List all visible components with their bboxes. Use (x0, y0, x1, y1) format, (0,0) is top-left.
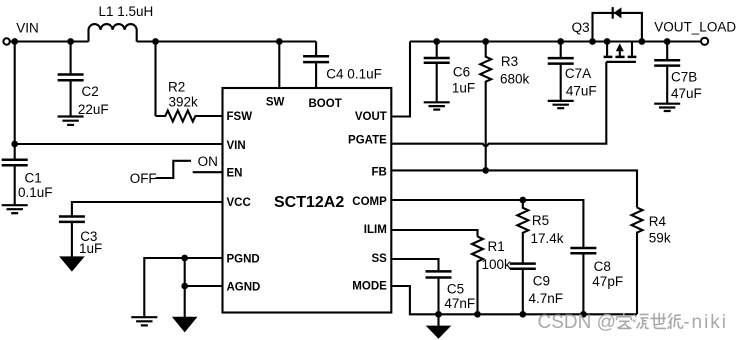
svg-text:VIN: VIN (16, 21, 39, 36)
node C5 ground junction (435, 311, 442, 318)
svg-text:ON: ON (198, 154, 218, 169)
svg-text:C6: C6 (453, 65, 470, 80)
wire VCC pin (72, 202, 223, 215)
op-amp U1 IC body SCT12A2 (223, 88, 392, 313)
svg-text:R4: R4 (649, 214, 667, 229)
node C6 junction (433, 38, 440, 45)
capacitor C1 (14, 42, 16, 159)
terminal VIN (3, 38, 9, 44)
wire BOOT stub (315, 63, 317, 88)
node SW branch junction (276, 38, 283, 45)
resistor R2 (156, 111, 223, 122)
transistor Q3 gate line (606, 61, 636, 63)
svg-text:4.7nF: 4.7nF (529, 291, 564, 306)
node VIN/C1 junction (11, 38, 18, 45)
svg-text:R3: R3 (501, 54, 518, 69)
svg-text:1uF: 1uF (452, 81, 475, 96)
wire output rail (410, 40, 701, 42)
svg-text:VOUT: VOUT (355, 111, 387, 123)
transistor Q3 body arrow (619, 51, 621, 57)
transistor Q3 source lead (631, 42, 633, 56)
svg-text:C2: C2 (82, 84, 99, 99)
wire SW stub (278, 42, 280, 89)
node C7B junction (664, 38, 671, 45)
wire FB pin (391, 170, 637, 207)
wire ILIM pin (391, 230, 478, 237)
svg-text:0.1uF: 0.1uF (18, 185, 53, 200)
ground below PGND wire (131, 316, 157, 318)
node diode left junction (589, 38, 596, 45)
wire VOUT pin riser (391, 42, 410, 117)
wire PGATE pin with hop over R3 (391, 62, 606, 146)
capacitor C6 (436, 42, 438, 57)
diode D body (of Q3) (614, 7, 622, 18)
svg-text:47nF: 47nF (444, 296, 475, 311)
resistor R1 (472, 237, 483, 315)
node R3 junction (482, 38, 489, 45)
svg-text:L1 1.5uH: L1 1.5uH (99, 4, 154, 19)
svg-text:SW: SW (266, 97, 285, 109)
ground triangle below C3 (59, 256, 85, 271)
svg-text:PGND: PGND (227, 253, 260, 265)
svg-text:392k: 392k (169, 95, 199, 110)
svg-text:22uF: 22uF (78, 102, 109, 117)
node C7A junction (557, 38, 564, 45)
svg-text:C8: C8 (594, 259, 611, 274)
capacitor C4 (315, 42, 317, 56)
node VIN pin junction (11, 141, 18, 148)
wire PGND pin (144, 258, 222, 317)
wire R2 branch drop (154, 42, 156, 117)
watermark glyph shi (650, 313, 666, 329)
node COMP/R5 junction (519, 197, 526, 204)
wire input rail right (L1 to C4 corner) (137, 40, 316, 42)
ground triangle below AGND (172, 317, 198, 333)
svg-text:100k: 100k (482, 257, 512, 272)
inductor L1 (89, 24, 137, 42)
wire body diode loop (593, 13, 642, 42)
svg-text:AGND: AGND (227, 282, 261, 294)
svg-text:C5: C5 (447, 282, 464, 297)
svg-text:MODE: MODE (352, 281, 387, 293)
svg-text:17.4k: 17.4k (531, 231, 564, 246)
svg-text:COMP: COMP (352, 196, 387, 208)
node C9 ground junction (519, 311, 526, 318)
ground triangle below C5 (426, 326, 452, 339)
svg-text:Q3: Q3 (572, 20, 590, 35)
wire ground riser (184, 258, 186, 317)
ground below C6 (424, 101, 450, 103)
wire EN pin (193, 171, 223, 173)
svg-text:47pF: 47pF (592, 274, 623, 289)
capacitor C7A (560, 42, 562, 58)
svg-text:VCC: VCC (227, 197, 251, 209)
svg-text:C4 0.1uF: C4 0.1uF (326, 66, 382, 81)
ground below C1 (2, 204, 28, 206)
ground below C7A (548, 100, 574, 102)
capacitor C9 (510, 262, 536, 265)
node diode right junction (639, 38, 646, 45)
svg-text:SCT12A2: SCT12A2 (274, 194, 344, 211)
switch EN drive OFF level (156, 161, 191, 178)
svg-text:59k: 59k (649, 230, 671, 245)
watermark glyph hong (617, 313, 632, 329)
svg-text:SS: SS (371, 253, 387, 265)
svg-text:VIN: VIN (227, 140, 246, 152)
capacitor C2 (70, 42, 72, 74)
node Q3 drain junction (604, 38, 611, 45)
node C2/L1 junction (67, 38, 74, 45)
node AGND junction (181, 283, 188, 290)
node R1 ground junction (474, 311, 481, 318)
wire AGND pin (185, 285, 223, 287)
svg-text:ILIM: ILIM (364, 224, 387, 236)
transistor Q3 drain lead (606, 42, 608, 56)
node FB/R3 junction (482, 167, 489, 174)
svg-text:FSW: FSW (227, 111, 253, 123)
wire input rail left (VIN terminal to L1) (10, 40, 89, 42)
capacitor C3 (59, 215, 85, 218)
svg-text:R2: R2 (168, 80, 185, 95)
node C8 ground junction (580, 311, 587, 318)
transistor Q3 channel bars (604, 56, 613, 59)
svg-text:EN: EN (227, 168, 243, 180)
wire COMP pin (391, 200, 583, 247)
svg-text:C7B: C7B (671, 69, 697, 84)
resistor R5 (517, 200, 528, 263)
terminal VOUT_LOAD (701, 38, 708, 45)
svg-text:C9: C9 (533, 274, 550, 289)
svg-text:R5: R5 (532, 213, 549, 228)
resistor R4 (632, 208, 643, 315)
svg-text:1uF: 1uF (79, 241, 102, 256)
node PGND junction (181, 255, 188, 262)
svg-text:47uF: 47uF (671, 86, 702, 101)
svg-text:R1: R1 (488, 239, 505, 254)
capacitor C8 (570, 247, 596, 250)
svg-text:C1: C1 (25, 170, 42, 185)
svg-text:C7A: C7A (565, 66, 591, 81)
svg-text:-niki: -niki (683, 312, 728, 333)
wire SS pin (391, 259, 439, 270)
svg-text:PGATE: PGATE (348, 135, 387, 147)
resistor R3 (480, 42, 491, 171)
svg-text:FB: FB (371, 167, 386, 179)
watermark glyph yuan (633, 314, 649, 328)
ground below C7B (654, 103, 680, 105)
svg-text:BOOT: BOOT (309, 98, 342, 110)
svg-text:680k: 680k (500, 71, 530, 86)
svg-text:VOUT_LOAD: VOUT_LOAD (654, 20, 736, 35)
svg-text:OFF: OFF (130, 171, 157, 186)
wire ground stub below C5 (437, 314, 439, 326)
capacitor C7B (666, 42, 668, 60)
wire MODE pin and bottom rail (391, 286, 637, 314)
svg-text:CSDN @: CSDN @ (538, 312, 616, 333)
wire VIN pin (15, 143, 223, 145)
capacitor C5 (426, 270, 452, 273)
node R2 branch junction (152, 38, 159, 45)
svg-text:47uF: 47uF (566, 83, 597, 98)
watermark glyph ji (668, 313, 683, 329)
ground below C2 (58, 115, 84, 117)
